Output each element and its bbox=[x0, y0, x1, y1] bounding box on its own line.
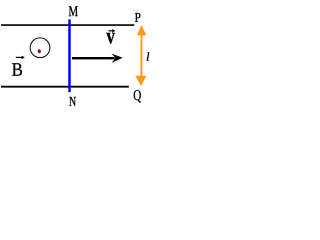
label l (length) bbox=[147, 52, 150, 60]
node P label bbox=[135, 13, 141, 22]
magnetic field region circle (B out of page) bbox=[30, 38, 50, 58]
vector arrow over B bbox=[16, 56, 25, 60]
label v bbox=[106, 33, 114, 44]
wire: bottom rail N to Q bbox=[1, 86, 129, 88]
length double arrow P-Q (orange) bbox=[135, 25, 146, 86]
label B bbox=[12, 63, 22, 75]
node Q label bbox=[134, 90, 141, 102]
vector arrow over v bbox=[109, 29, 116, 33]
node M label bbox=[69, 6, 78, 16]
node N label bbox=[69, 97, 76, 106]
conducting rod MN (blue) bbox=[68, 19, 71, 92]
magnetic field dot (out of page) bbox=[38, 49, 41, 53]
velocity arrow (black, pointing right) bbox=[72, 54, 123, 63]
wire: top rail M to P bbox=[1, 24, 134, 26]
